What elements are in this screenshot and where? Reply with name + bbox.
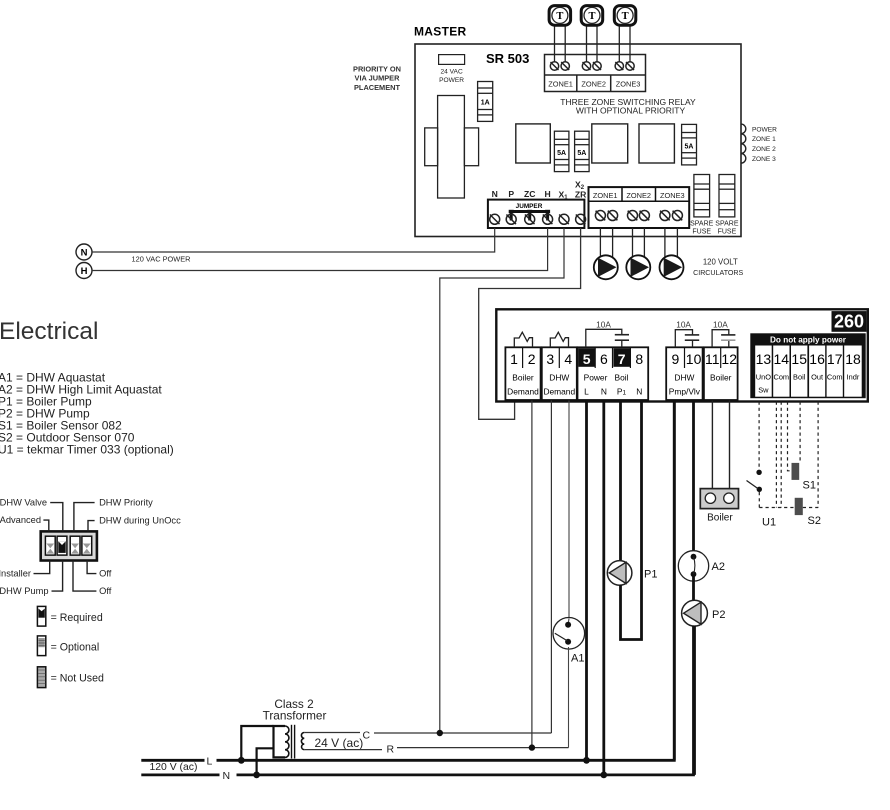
leader Advanced <box>43 520 48 531</box>
junction dot t6/N <box>600 772 607 779</box>
svg-text:Boil: Boil <box>793 373 806 382</box>
spare fuse 2 <box>719 175 735 217</box>
svg-text:9: 9 <box>672 351 680 367</box>
svg-text:Off: Off <box>99 569 112 579</box>
svg-text:PRIORITY ON: PRIORITY ON <box>353 65 401 74</box>
fuse 10A (terminals 11-12) <box>712 330 729 348</box>
svg-text:POWER: POWER <box>439 77 464 84</box>
svg-text:N: N <box>492 189 498 199</box>
terminal 17 Com <box>827 346 843 397</box>
aquastat A2 <box>678 551 708 581</box>
wire N circle to N terminal <box>92 228 495 252</box>
svg-text:ZONE1: ZONE1 <box>593 191 618 200</box>
legend icon Optional <box>37 636 45 656</box>
leader Off (switch 4) <box>87 561 96 574</box>
svg-text:T: T <box>588 11 595 22</box>
legend icon Required <box>37 606 45 626</box>
terminal 15 Boil <box>791 346 807 397</box>
svg-text:DHW Valve: DHW Valve <box>0 498 47 508</box>
LED ZONE 2 <box>741 144 746 154</box>
svg-text:Advanced: Advanced <box>0 515 41 525</box>
left terminal strip (N P ZC H X1 ZR) <box>488 200 585 228</box>
svg-text:L: L <box>207 756 213 768</box>
DIP slot 2 <box>57 536 67 555</box>
svg-text:Com: Com <box>773 373 789 382</box>
terminal block 5-8 Power / Boil <box>578 347 649 400</box>
svg-text:Boiler: Boiler <box>707 513 733 524</box>
svg-text:SR 503: SR 503 <box>486 51 529 66</box>
svg-text:UnO: UnO <box>756 373 771 382</box>
svg-text:1A: 1A <box>481 100 490 107</box>
svg-text:ZONE 3: ZONE 3 <box>752 156 776 163</box>
pump P1 <box>607 561 632 586</box>
leader Off (switch 3) <box>73 561 96 592</box>
wire terminal 7 to P1 <box>619 401 622 562</box>
svg-text:2: 2 <box>528 351 536 367</box>
screw terminals (input strip) <box>550 62 634 70</box>
dashed wire to S1 left <box>788 402 792 471</box>
sensor S2 <box>795 498 803 515</box>
DIP switch block <box>41 531 97 560</box>
wire ZR to 260 terminal 1 <box>479 228 581 419</box>
leader DHW during UnOcc <box>88 521 95 532</box>
svg-text:L: L <box>584 387 589 397</box>
svg-text:Boiler: Boiler <box>710 373 732 383</box>
screw terminals (left strip) <box>490 214 586 224</box>
leader Installer <box>34 561 50 574</box>
wire terminal 11 to boiler <box>711 401 713 489</box>
svg-text:POWER: POWER <box>752 126 777 133</box>
wire H circle to H terminal <box>92 228 548 271</box>
svg-text:5: 5 <box>583 351 591 367</box>
terminal 16 Out <box>809 346 825 397</box>
svg-text:DHW: DHW <box>674 373 694 383</box>
svg-text:N: N <box>601 387 607 397</box>
relay contact above terminals 3-4 <box>550 332 568 347</box>
svg-text:5A: 5A <box>685 143 694 150</box>
note PRIORITY ON VIA JUMPER PLACEMENT <box>353 65 401 93</box>
terminal block 9-10 DHW Pmp/Vlv <box>666 347 702 400</box>
relay K1 <box>516 124 551 163</box>
wire primary top lead to L rail <box>241 726 273 760</box>
svg-text:ZONE 2: ZONE 2 <box>752 146 776 153</box>
screw terminals (output strip) <box>595 211 682 221</box>
svg-text:Demand: Demand <box>543 387 575 397</box>
wire terminal 6 to N rail <box>602 401 605 775</box>
svg-text:N: N <box>81 248 88 259</box>
wire T1 to zone1 input <box>554 27 556 62</box>
terminal block 1-2 Boiler Demand <box>505 347 540 400</box>
svg-text:DHW Pump: DHW Pump <box>0 586 49 596</box>
svg-text:U1: U1 <box>762 517 776 529</box>
svg-text:CIRCULATORS: CIRCULATORS <box>693 269 743 277</box>
svg-text:ZONE3: ZONE3 <box>660 191 685 200</box>
terminal 14 Com <box>773 346 789 397</box>
svg-text:JUMPER: JUMPER <box>516 203 543 210</box>
svg-text:16: 16 <box>809 351 825 367</box>
wire terminal 5 to L rail <box>585 401 588 761</box>
svg-text:17: 17 <box>827 351 843 367</box>
junction dot primary/L <box>238 757 245 764</box>
transformer primary coil <box>285 726 289 757</box>
wire terminal 2 to R <box>531 401 533 748</box>
svg-text:FUSE: FUSE <box>692 229 711 236</box>
svg-text:MASTER: MASTER <box>414 25 466 39</box>
svg-text:S2: S2 <box>808 515 821 527</box>
svg-text:WITH OPTIONAL PRIORITY: WITH OPTIONAL PRIORITY <box>576 106 686 116</box>
svg-text:ZONE3: ZONE3 <box>616 79 641 88</box>
boiler terminal box <box>700 489 738 509</box>
svg-text:N: N <box>223 770 231 782</box>
wire P2 to N rail <box>693 626 696 775</box>
LED ZONE 3 <box>741 154 746 164</box>
relay contact above terminals 1-2 <box>514 332 532 347</box>
svg-text:Pmp/Vlv: Pmp/Vlv <box>669 387 701 397</box>
transformer core <box>291 725 293 759</box>
wire terminal 12 to boiler <box>729 401 731 489</box>
transformer block (cross shape) <box>425 96 479 199</box>
fuse 1A <box>478 82 493 122</box>
svg-text:VIA JUMPER: VIA JUMPER <box>355 74 401 83</box>
svg-text:13: 13 <box>756 351 772 367</box>
wire T3 to zone3 input <box>618 27 620 62</box>
svg-text:R: R <box>387 744 395 756</box>
svg-text:Sw: Sw <box>758 386 769 395</box>
control 260 enclosure <box>496 309 868 401</box>
svg-text:5A: 5A <box>557 150 566 157</box>
leader DHW Valve <box>50 503 63 532</box>
dashed horizontal U1/S2 net <box>759 507 794 509</box>
svg-text:24 VAC: 24 VAC <box>440 69 462 76</box>
relay K2 <box>592 124 628 163</box>
svg-text:Do not apply power: Do not apply power <box>770 335 847 344</box>
svg-text:SPARE: SPARE <box>690 221 714 228</box>
svg-text:ZONE2: ZONE2 <box>626 191 651 200</box>
terminal 13 UnO Sw <box>755 346 772 397</box>
rail L (120V hot) <box>141 759 204 762</box>
svg-text:24 V (ac): 24 V (ac) <box>315 736 364 750</box>
node N (120VAC neutral) <box>76 244 92 260</box>
LED ZONE 1 <box>741 134 746 144</box>
svg-text:= Optional: = Optional <box>51 642 100 654</box>
thermostat T2 <box>581 6 603 26</box>
dashed wire terminal 16 to S2 <box>817 402 819 508</box>
svg-text:T: T <box>622 11 629 22</box>
svg-text:10A: 10A <box>596 319 611 329</box>
wire secondary top lead <box>304 732 360 734</box>
terminal 7 (black) <box>613 348 630 367</box>
svg-text:P2: P2 <box>712 609 725 621</box>
wire terminal 9 to L rail riser <box>673 401 676 761</box>
svg-text:PLACEMENT: PLACEMENT <box>354 83 400 92</box>
legend list <box>0 371 174 457</box>
wire C <box>374 732 551 734</box>
svg-text:10A: 10A <box>676 319 691 329</box>
svg-text:DHW Priority: DHW Priority <box>99 498 153 508</box>
wire terminal 4 to A1 <box>568 401 570 619</box>
svg-text:120 V (ac): 120 V (ac) <box>150 762 198 773</box>
zone output terminal strip <box>589 187 690 228</box>
wire R <box>397 747 569 749</box>
thermostat T3 <box>614 6 636 26</box>
svg-text:5A: 5A <box>577 150 586 157</box>
svg-text:H: H <box>81 266 88 277</box>
DIP slot 4 <box>82 536 92 555</box>
sensor S1 <box>792 463 800 480</box>
svg-text:Electrical: Electrical <box>0 318 98 345</box>
svg-text:H: H <box>544 189 550 199</box>
svg-text:7: 7 <box>618 351 626 367</box>
svg-text:Com: Com <box>827 373 843 382</box>
svg-text:U1 = tekmar Timer 033 (optiona: U1 = tekmar Timer 033 (optional) <box>0 443 174 457</box>
circulator pump 3 <box>660 255 684 279</box>
circulator pump 2 <box>626 255 650 279</box>
timer switch U1 <box>756 470 761 475</box>
wire zone3 screws to circulator 3 <box>664 228 666 257</box>
junction dot primary/N <box>253 772 260 779</box>
svg-text:8: 8 <box>635 351 643 367</box>
transformer secondary coil <box>301 733 304 750</box>
svg-text:T: T <box>556 11 563 22</box>
junction dot t5/L <box>583 757 590 764</box>
svg-text:3: 3 <box>546 351 554 367</box>
junction dot C/X1 <box>437 730 443 736</box>
fuse 5A (zone3) <box>682 124 697 164</box>
junction dot R/terminal2 <box>529 744 535 750</box>
svg-text:4: 4 <box>564 351 572 367</box>
SR 503 enclosure box <box>415 44 741 237</box>
svg-text:120 VAC POWER: 120 VAC POWER <box>132 255 191 264</box>
label THREE ZONE SWITCHING RELAY WITH OPTIONAL PRIORITY <box>560 97 696 116</box>
label 120 VOLT CIRCULATORS <box>693 258 743 278</box>
rail N (120V neutral) <box>141 774 219 777</box>
svg-text:120 VOLT: 120 VOLT <box>703 258 738 267</box>
svg-text:A1: A1 <box>571 653 584 665</box>
node H (120VAC hot) <box>76 263 92 279</box>
fuse 5A (zone1) <box>554 131 569 171</box>
fuse 10A (terminals 5-7) <box>586 329 622 347</box>
svg-text:ZC: ZC <box>524 189 535 199</box>
svg-text:Out: Out <box>811 373 823 382</box>
leader DHW Pump <box>52 561 63 592</box>
dashed wire terminal 14 (a) <box>775 402 777 508</box>
LED POWER <box>741 124 746 134</box>
svg-text:DHW: DHW <box>549 373 569 383</box>
svg-text:14: 14 <box>774 351 790 367</box>
aquastat A1 <box>553 618 585 650</box>
svg-text:Transformer: Transformer <box>263 709 327 723</box>
svg-text:Off: Off <box>99 586 112 596</box>
svg-text:18: 18 <box>845 351 861 367</box>
svg-text:P: P <box>508 189 514 199</box>
fuse 10A (terminals 9-10) <box>675 330 692 348</box>
badge 260 <box>832 311 867 332</box>
svg-text:ZR: ZR <box>575 190 587 200</box>
svg-text:ZONE2: ZONE2 <box>581 79 606 88</box>
jumper bar P-ZC-H <box>511 212 547 220</box>
terminal 18 Indr <box>844 346 862 397</box>
terminal 5 (black) <box>578 348 595 367</box>
wire secondary bottom lead <box>304 749 382 751</box>
dashed wire terminal 14 (b) <box>780 402 782 508</box>
svg-text:A2: A2 <box>712 561 725 573</box>
svg-text:SPARE: SPARE <box>715 221 739 228</box>
wire P1 loop to terminal 8 <box>621 401 642 640</box>
svg-text:Boil: Boil <box>615 373 629 383</box>
wire zone1 screws to circulator 1 <box>599 228 601 257</box>
svg-text:Installer: Installer <box>0 569 31 579</box>
svg-text:10: 10 <box>686 351 702 367</box>
wire A1 to R line <box>568 647 570 748</box>
wire terminal 3 to C <box>550 401 552 734</box>
svg-text:260: 260 <box>834 312 864 332</box>
svg-text:6: 6 <box>600 351 608 367</box>
svg-text:S1: S1 <box>803 480 816 492</box>
DIP slot 3 <box>70 536 80 555</box>
svg-text:10A: 10A <box>713 319 728 329</box>
DIP slot 1 <box>45 536 55 555</box>
svg-text:Boiler: Boiler <box>512 373 534 383</box>
svg-text:Demand: Demand <box>507 387 539 397</box>
svg-text:Power: Power <box>584 373 608 383</box>
svg-text:11: 11 <box>705 351 720 367</box>
svg-text:12: 12 <box>721 351 737 367</box>
svg-text:15: 15 <box>791 351 807 367</box>
svg-text:FUSE: FUSE <box>718 229 737 236</box>
circulator pump 1 <box>594 255 618 279</box>
transformer T primary bracket <box>274 726 286 757</box>
svg-text:= Not Used: = Not Used <box>51 673 104 685</box>
terminal block 3-4 DHW Demand <box>542 347 577 400</box>
spare fuse 1 <box>694 175 710 217</box>
zone Do not apply power <box>750 333 865 398</box>
dashed wire terminal 15 to S1 top <box>799 402 801 463</box>
wire terminal 10 to A2 <box>692 401 695 558</box>
wire A2 to P2 <box>692 574 695 601</box>
svg-text:ZONE1: ZONE1 <box>548 79 573 88</box>
svg-text:DHW during UnOcc: DHW during UnOcc <box>99 516 181 526</box>
svg-text:N: N <box>636 387 642 397</box>
terminal block 11-12 Boiler <box>704 347 738 400</box>
legend icon Not Used <box>37 667 45 688</box>
dashed wire terminal 13 to U1 switch <box>758 402 760 470</box>
24 VAC POWER box <box>439 55 465 65</box>
svg-text:C: C <box>363 730 371 742</box>
leader DHW Priority <box>74 503 95 532</box>
svg-text:P1: P1 <box>644 569 657 581</box>
svg-text:Indr: Indr <box>847 373 860 382</box>
svg-text:ZONE 1: ZONE 1 <box>752 136 776 143</box>
wire zone2 screws to circulator 2 <box>632 228 634 257</box>
wire T2 to zone2 input <box>586 27 588 62</box>
thermostat T1 <box>549 6 571 26</box>
wire X1 to transformer C <box>440 228 564 733</box>
relay K3 <box>639 124 674 163</box>
wire primary bottom lead to N rail <box>257 748 274 775</box>
dashed wire U1 to horizontal <box>758 492 760 508</box>
fuse 5A (zone2) <box>575 131 590 171</box>
thermostat input terminal strip <box>545 55 646 92</box>
svg-text:1: 1 <box>510 351 518 367</box>
pump P2 <box>682 600 708 626</box>
svg-text:= Required: = Required <box>51 612 103 624</box>
